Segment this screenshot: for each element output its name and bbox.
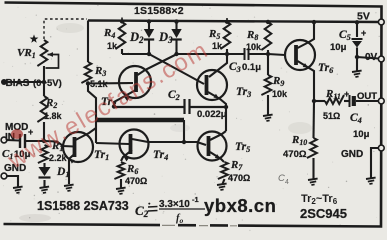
label VR1 [17,47,36,60]
svg-text:-1: -1 [192,195,199,204]
svg-text:+: + [361,28,366,38]
cross wire to Tr3 base [149,54,204,84]
label C2 value [197,109,227,120]
label R1 value [49,153,68,163]
svg-text:3.3×10: 3.3×10 [159,199,190,210]
ground under D1 [40,187,50,193]
wire to Tr4 base [96,143,129,144]
wire down to Tr5 [225,107,227,131]
svg-text:1S1588 2SA733: 1S1588 2SA733 [37,199,129,213]
Tr5 collector [210,131,226,140]
wire node B horizontal [177,53,227,55]
junction on 5V rail [147,19,151,23]
svg-text:10k: 10k [272,89,288,99]
ground under Tr1 [64,185,74,191]
label 1S1588 2SA733 [37,199,129,213]
svg-text:+: + [344,89,349,99]
label R5 [208,28,220,41]
label IN [5,132,15,143]
wire BIAS [6,81,44,83]
label C2 [168,89,180,102]
wire node C to Tr6 base [268,54,285,55]
capacitor C4 [344,89,354,107]
svg-text:1k: 1k [212,41,223,51]
resistor R5 [220,22,230,49]
label Tr3 [236,86,251,99]
label Tr6 [318,62,334,75]
Tr6 emitter [298,61,315,101]
label R4 value [107,41,118,51]
label 2SC945 [300,206,347,221]
wire C4 to OUT [356,100,379,102]
label 0V [365,52,378,63]
svg-text:1k: 1k [107,41,118,51]
svg-text:0.1μ: 0.1μ [242,62,261,73]
wire C3 to node C [250,53,269,55]
wire rail to D2 [148,21,150,29]
label C1 [2,148,31,161]
node 0V [355,55,359,59]
label R3 value [90,79,109,89]
transistor Tr6 [285,40,315,70]
label 5V [357,11,370,23]
label R1 [51,140,63,153]
label R10 [291,134,307,147]
svg-text:51Ω: 51Ω [323,111,340,121]
OUT terminal [378,98,384,104]
wire R3 jog down [88,84,96,144]
svg-text:ybx8.cn: ybx8.cn [204,195,276,216]
Tr4 collector [132,139,148,142]
junction on 5V rail [174,19,178,23]
transistor Tr2 [119,66,151,98]
star mark [30,34,39,42]
ground at GND input [13,187,23,193]
wire C2 to Tr5 collector [191,106,227,108]
node C [266,52,270,56]
transistor Tr4 [120,130,149,159]
Tr2 emitter [114,89,138,107]
wire GND terminal [6,176,18,187]
resistor R3 [81,62,91,83]
wire 5V rail [88,21,380,23]
wire Tr2 base [88,82,133,85]
node A [147,52,151,56]
label GND right [341,149,363,160]
svg-text:(0~5V): (0~5V) [33,78,62,89]
Tr1 collector [76,128,97,140]
wire R4 to node [121,49,123,54]
resistor R2 [37,96,47,122]
label Tr4 [153,149,168,162]
resistor R1 [38,145,48,163]
svg-text:2SC945: 2SC945 [300,206,347,221]
svg-text:10k: 10k [246,42,262,52]
label C5 value [330,42,347,53]
red blob at C1 [11,129,23,139]
VR1 wiper arrow [46,52,59,68]
wire rail to D3 [175,21,177,29]
wire Tr4 to Tr5 [148,142,206,145]
label Tr2 [101,96,116,109]
svg-text:0.022μ: 0.022μ [197,109,227,120]
Tr4 emitter [121,150,132,161]
formula numerator [159,195,199,210]
wire Tr6 emitter to R10 [312,101,315,138]
red watermark elecfans [3,36,214,175]
black watermark ybx8 [204,195,276,216]
resistor R10 [307,138,317,158]
GND terminal [1,173,7,179]
junction on 5V rail [266,20,270,24]
resistor R8 [261,22,271,50]
label R11 [325,88,341,101]
wire GND right [371,148,379,178]
svg-text:BIAS: BIAS [6,78,30,89]
wire bias to R2 [43,82,45,96]
svg-text:OUT: OUT [357,91,377,102]
Tr5 emitter [210,152,224,162]
wire R5 to node [226,49,228,54]
wire R9 ground [267,95,269,115]
junction on 5V rail [312,20,316,24]
wire node B to C3 [227,53,244,55]
wire R2 to node [43,122,45,141]
label R6 [126,163,138,176]
Tr3 collector [209,54,227,77]
label Tr2~Tr6 [301,193,338,206]
MOD IN terminal [1,137,7,143]
resistor R6 [114,162,124,179]
diode D3 [171,29,181,40]
wire D2 to node [148,40,150,54]
capacitor C2 [185,99,190,114]
junction on 5V rail [355,20,359,24]
wire D3 to node [175,40,177,54]
wire R11 to C4 [344,100,349,102]
tick above rail at R4 [121,18,123,22]
svg-text:10μ: 10μ [353,129,370,140]
label D1 [56,166,69,179]
wire R10 ground [312,158,314,179]
node R3 bottom [86,81,90,85]
node emitter Tr6 [312,99,316,103]
transistor Tr3 [197,70,227,100]
label C3 [229,61,261,74]
potentiometer VR1 [37,40,47,66]
tick above rail at R5 [226,18,228,22]
label R8 [246,29,258,42]
wire bar to Tr4-Tr5 wire [183,120,185,142]
wire 0V [357,57,379,59]
wire C5 to 0V node [356,48,358,58]
ground under R7 [217,184,227,190]
wire heavy coupling bar [95,118,184,122]
capacitor C5 [352,28,367,48]
label OUT [357,91,377,102]
label R6 value [125,176,147,186]
svg-text:470Ω: 470Ω [228,173,250,183]
5V terminal [378,19,384,25]
svg-text:Tr2~Tr6: Tr2~Tr6 [301,193,338,206]
label C5 [339,29,351,42]
dashed wire VR1 to rail [44,19,87,39]
BIAS terminal [1,79,7,85]
diode D1 [39,167,51,178]
svg-text:4: 4 [285,179,289,186]
svg-text:GND: GND [341,149,363,160]
gray smudges [19,23,312,222]
wire node to Tr1 base [44,141,74,147]
label GND [4,163,26,174]
Tr3 emitter [208,92,226,107]
label R10 value [283,149,307,160]
ground under R9 [263,115,273,121]
wire R8 to node C [267,50,269,54]
label C4 value [353,129,370,140]
0V terminal [378,56,384,62]
capacitor C1 [20,127,33,148]
label R11 value [323,111,340,121]
label R7 [230,159,243,172]
resistor R7 [218,162,228,179]
node bias junction [42,80,46,84]
node C2 left [112,104,116,108]
node C2 right [224,105,228,109]
wire R1 to D1 [43,163,45,167]
svg-text:470Ω: 470Ω [125,176,147,186]
ground under R6 [116,188,126,194]
resistor R9 [261,75,271,95]
junction on 5V rail [225,20,229,24]
wire rail to C5 [356,22,358,38]
wire VR1 to bias node [43,66,45,82]
label D2 [129,30,144,45]
svg-text:0V: 0V [365,52,378,63]
label MOD [5,122,28,133]
stray mark C4 smudge [278,173,289,186]
ground at GND right [366,178,376,184]
svg-text:5V: 5V [357,11,370,23]
wire R7 ground [223,179,225,184]
Tr1 emitter [69,153,76,184]
node B [174,52,178,56]
wire node C to R9 [267,54,269,75]
transistor Tr5 [198,132,227,161]
wire C1 to node [26,140,45,142]
label R8 value [246,42,262,52]
formula bar [159,208,205,210]
wire 0V node to ground [356,57,358,71]
node input junction [42,139,46,143]
label 1S1588x2 [134,5,184,17]
label C4 [350,112,362,125]
label R3 [94,65,106,78]
ground at 0V [352,71,362,77]
label R9 value [272,89,288,99]
label R4 [103,27,115,40]
label Tr5 [235,141,250,154]
label R5 value [212,41,223,51]
diode D2 [144,29,154,40]
ground under R10 [308,179,318,185]
svg-text:470Ω: 470Ω [283,149,307,160]
wire Tr2 emitter to C2 [114,106,184,108]
node R5 bottom [225,52,229,56]
wire R6 ground [120,179,122,188]
label R7 value [228,173,250,183]
label R9 [272,75,284,88]
Tr6 collector [298,22,315,49]
resistor R4 [115,22,125,49]
wire D1 to ground [43,180,45,187]
transistor Tr1 [63,132,93,162]
label R2 value [44,111,63,121]
wire node A horizontal [122,53,149,55]
label Tr1 [94,149,109,162]
formula denominator [176,213,184,225]
Tr2 collector diagonal [138,54,178,75]
label R2 [45,97,57,110]
capacitor C3 [245,48,249,60]
junction on 5V rail [120,19,124,23]
svg-text:10μ: 10μ [330,42,347,53]
wire to R11 [314,100,325,102]
wire rail to R3 [87,21,89,63]
svg-text:1S1588×2: 1S1588×2 [134,5,184,17]
resistor R11 [325,95,344,104]
label C2 formula [135,203,158,220]
label BIAS (0~5V) [6,78,62,89]
svg-text:C: C [278,173,285,184]
wire MOD IN to C1 [6,139,19,142]
GND right terminal [378,145,384,151]
node bar junction [182,140,186,144]
label D3 [158,30,173,45]
